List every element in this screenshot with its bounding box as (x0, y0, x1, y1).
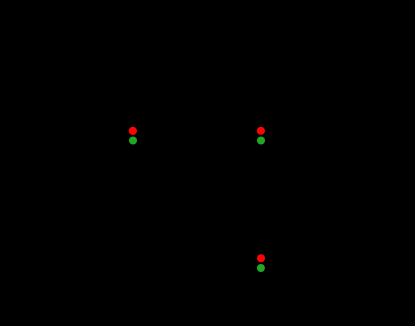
wire: bottom run from signal C (271, 262, 345, 264)
signal head A outline (124, 122, 142, 150)
LED D3 red (signal B) (257, 127, 265, 135)
LED D6 green (signal C) (257, 264, 265, 272)
LED D2 green (signal A) (129, 136, 137, 144)
LED D5 red (signal C) (257, 254, 265, 262)
ground (52, 136, 68, 158)
wire: left vertical feed to signal A (69, 135, 123, 137)
LED D4 green (signal B) (257, 136, 265, 144)
signal head C outline (252, 249, 270, 277)
wire: feed to signal B (143, 135, 251, 137)
wire: vertical run from signal B to signal C (260, 150, 262, 249)
signal head B outline (252, 122, 270, 150)
LED D1 red (signal A) (129, 127, 137, 135)
